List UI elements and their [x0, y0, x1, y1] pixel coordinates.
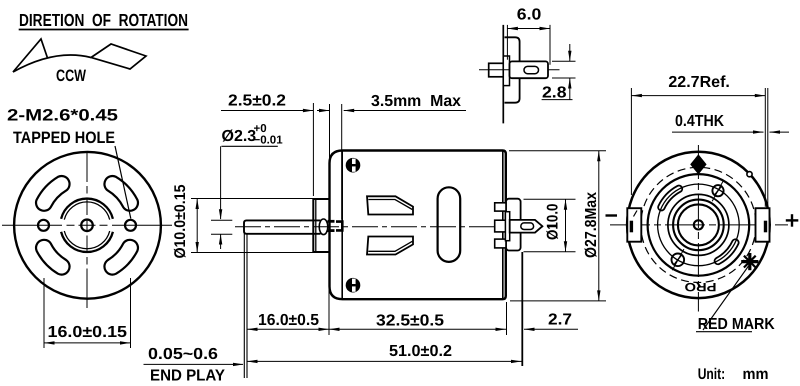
svg-text:32.5±0.5: 32.5±0.5: [376, 313, 444, 330]
motor body outline: [330, 151, 506, 300]
shaft centerline: [235, 226, 556, 228]
dimension 3.5mm Max: [342, 93, 466, 220]
screw upper-right: [712, 180, 724, 201]
dimension 51.0±0.2: [247, 343, 522, 363]
svg-text:3.5mm Max: 3.5mm Max: [371, 93, 461, 110]
dimension 32.5±0.5: [329, 313, 506, 332]
REAR VIEW: [606, 145, 799, 312]
svg-text:16.0±0.5: 16.0±0.5: [258, 312, 319, 329]
leader to tapped hole: [115, 146, 131, 219]
red mark star: [741, 253, 758, 270]
dimension 6.0: [507, 7, 550, 65]
dimension Ø2.3 +0/-0.01: [211, 123, 283, 249]
svg-text:2.8: 2.8: [542, 85, 567, 102]
terminal tab bottom: [495, 239, 506, 248]
dimension 2.7: [524, 312, 578, 332]
vent arc lower-right: [715, 239, 739, 264]
face line: [502, 25, 504, 124]
pin hole: [747, 172, 752, 177]
svg-text:Ø27.8Max: Ø27.8Max: [583, 192, 600, 258]
bearing washer: [319, 219, 328, 235]
bearing rect: [489, 63, 504, 77]
shaft: [244, 220, 321, 233]
terminal tab: [510, 61, 549, 78]
outer circle: [14, 152, 161, 299]
tapped hole left: [38, 220, 49, 231]
outer circle: [627, 152, 770, 298]
svg-text:22.7Ref.: 22.7Ref.: [668, 74, 730, 91]
svg-text:Unit:: Unit:: [698, 366, 726, 383]
terminal tab middle: [495, 220, 506, 232]
boss ring outer: [673, 200, 724, 251]
minus terminal: [606, 214, 618, 216]
svg-text:Ø10.0: Ø10.0: [545, 204, 562, 241]
dimension 2.8: [542, 44, 576, 102]
dimension Ø10.0±0.15: [172, 184, 314, 258]
svg-text:Ø2.3: Ø2.3: [222, 128, 257, 145]
dashed circle: [641, 167, 756, 282]
diamond marker: [690, 154, 706, 174]
axis: [479, 69, 560, 71]
bearing ring outer arcs: [61, 199, 113, 219]
terminal tab top: [495, 203, 506, 211]
title: DIRETION OF ROTATION: [19, 10, 189, 30]
dimension Ø27.8Max: [509, 151, 606, 301]
svg-text:+0: +0: [254, 123, 267, 135]
svg-text:−0.01: −0.01: [254, 135, 284, 147]
retainer clip: [336, 222, 342, 231]
bracket: [505, 37, 520, 102]
dimension Ø10.0 (terminals): [524, 199, 576, 252]
svg-text:CCW: CCW: [56, 67, 86, 85]
svg-text:DIRETION OF ROTATION: DIRETION OF ROTATION: [19, 10, 188, 30]
shaft circle: [81, 220, 93, 232]
dimension 16.0±0.15: [44, 278, 131, 348]
svg-text:2-M2.6*0.45: 2-M2.6*0.45: [7, 107, 118, 125]
end play lines: [243, 234, 245, 378]
vent slot lower-right: [104, 240, 138, 275]
circle r30.5: [668, 194, 729, 255]
screw lower-left: [672, 249, 685, 270]
bearing boss: [313, 199, 329, 252]
vent cutout lower: [367, 237, 413, 255]
svg-text:0.4THK: 0.4THK: [675, 113, 724, 130]
boss ring inner: [678, 204, 719, 245]
unit label: [698, 366, 769, 383]
oval vent: [438, 187, 461, 262]
TOP DETAIL VIEW (terminal): [479, 25, 560, 124]
svg-text:TAPPED HOLE: TAPPED HOLE: [13, 129, 115, 147]
brush cap right: [756, 208, 770, 242]
svg-text:END PLAY: END PLAY: [150, 368, 225, 385]
red mark label: [696, 266, 775, 333]
svg-text:6.0: 6.0: [517, 7, 542, 24]
tapped hole right: [125, 220, 136, 231]
svg-text:PRO: PRO: [685, 280, 717, 294]
dimension 2.5±0.2: [221, 93, 330, 197]
dimension 22.7Ref.: [631, 74, 767, 207]
vent slot lower-left: [36, 240, 70, 275]
shaft: [694, 220, 703, 229]
ext line body right: [506, 302, 508, 335]
FRONT VIEW: [2, 152, 172, 308]
terminal lug: [510, 220, 543, 233]
svg-text:RED MARK: RED MARK: [698, 316, 775, 333]
rotation arrow symbol (CCW): [13, 39, 146, 72]
circle r40.8: [658, 184, 740, 266]
svg-text:2.7: 2.7: [548, 312, 572, 329]
centerline vertical: [86, 152, 88, 308]
centerline vertical: [697, 145, 699, 312]
end play label: [144, 346, 244, 385]
svg-text:51.0±0.2: 51.0±0.2: [389, 343, 452, 360]
vent cutout upper: [367, 196, 413, 214]
svg-text:Ø10.0±0.15: Ø10.0±0.15: [172, 184, 189, 258]
can right seam: [502, 151, 504, 299]
circle r50.8: [648, 174, 750, 276]
terminal ext line: [521, 252, 523, 366]
svg-text:0.05~0.6: 0.05~0.6: [148, 346, 218, 363]
SIDE VIEW: [235, 151, 556, 379]
vent slot upper-right: [104, 176, 138, 211]
plus terminal: [786, 214, 799, 227]
vent slot upper-left: [36, 176, 70, 211]
dimension 16.0±0.5: [247, 312, 329, 331]
insulator bar: [503, 56, 509, 86]
svg-text:mm: mm: [743, 366, 769, 383]
terminal insulator bar: [505, 212, 509, 241]
endbell seam: [341, 151, 343, 299]
brush cap left: [627, 208, 641, 242]
vent arc upper-left: [658, 186, 682, 211]
screw top: [346, 158, 361, 173]
ext line boss: [328, 254, 330, 335]
centerline horizontal: [2, 224, 172, 226]
dimension 0.4THK: [672, 113, 789, 134]
svg-text:16.0±0.15: 16.0±0.15: [48, 324, 128, 341]
terminal block: [506, 199, 521, 251]
screw bottom: [346, 278, 361, 293]
centerline horizontal: [610, 224, 788, 226]
svg-text:2.5±0.2: 2.5±0.2: [228, 93, 286, 110]
bearing ring inner arcs: [64, 202, 109, 220]
